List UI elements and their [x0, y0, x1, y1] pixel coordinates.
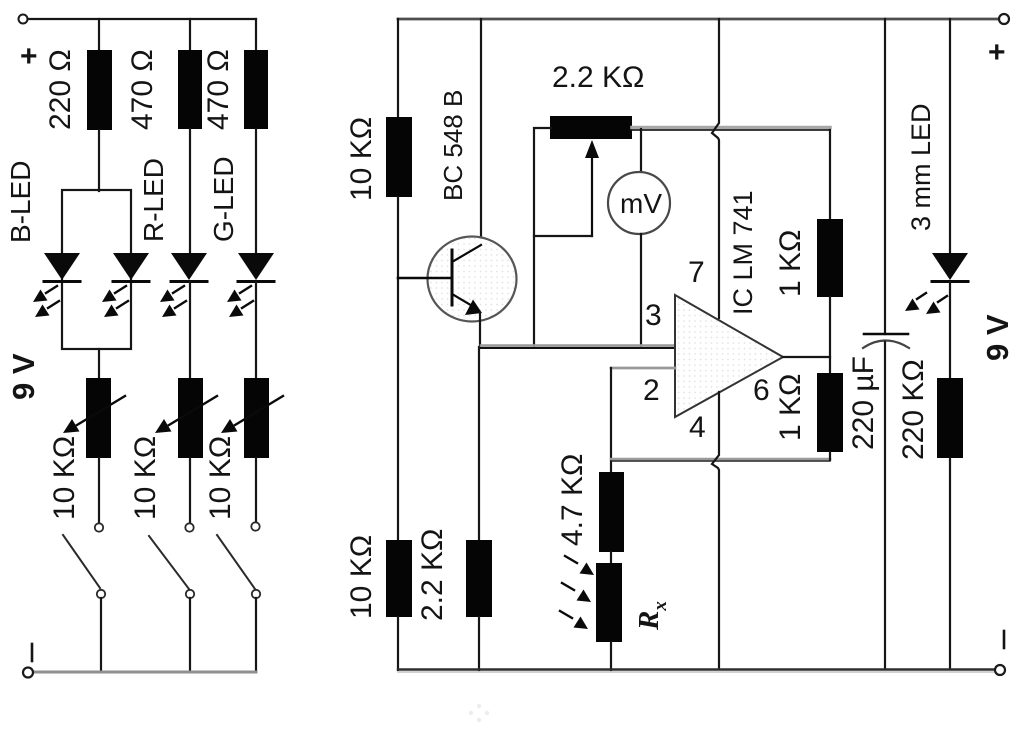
svg-text:B-LED: B-LED — [5, 161, 36, 243]
resistor 220 Ω — [87, 50, 112, 130]
switch S3 — [251, 522, 259, 530]
resistor 10 kΩ (base divider top) — [386, 117, 412, 197]
wire bottom rail (negative) — [398, 668, 995, 670]
svg-text:3 mm LED: 3 mm LED — [906, 103, 936, 231]
diode B-LED a (left) — [33, 253, 80, 317]
resistor 1 kΩ (upper) — [817, 219, 843, 297]
wire pot2 to switch2 — [189, 458, 191, 523]
wire base — [398, 277, 450, 280]
svg-text:+: + — [20, 40, 38, 73]
svg-text:10 KΩ: 10 KΩ — [129, 436, 162, 520]
potentiometer 2.2 KΩ body — [550, 116, 632, 139]
wire bottom rail — [33, 671, 256, 674]
wire pin4 down with hop — [712, 392, 719, 669]
svg-text:2.2 KΩ: 2.2 KΩ — [552, 61, 644, 94]
diode 3 mm LED — [905, 253, 968, 314]
wire output to 1k junction — [783, 356, 830, 358]
faint artifact dots — [469, 704, 489, 722]
svg-text:+: + — [988, 36, 1006, 69]
svg-text:10 KΩ: 10 KΩ — [345, 117, 378, 201]
switch S2 — [185, 523, 193, 531]
wire left branch resistor to bottom resistor — [397, 197, 399, 541]
wire pin2 (gray) — [611, 367, 675, 370]
wire left branch from rail — [397, 19, 399, 118]
svg-text:9 V: 9 V — [980, 314, 1015, 361]
wire meter top — [640, 129, 642, 172]
svg-text:220 µF: 220 µF — [847, 356, 880, 450]
wire pin3 node (emitter to op-amp +) — [481, 344, 675, 347]
svg-text:IC LM 741: IC LM 741 — [728, 190, 758, 315]
terminal + (right circuit) — [999, 14, 1009, 24]
wire pot left terminal down — [534, 128, 551, 346]
LDR light arrows — [560, 556, 594, 629]
label - — [1003, 631, 1006, 648]
svg-text:220 Ω: 220 Ω — [44, 49, 77, 130]
wire branch1 top — [98, 19, 100, 51]
meter mV — [608, 172, 670, 234]
terminal - (negative supply, left circuit) — [23, 668, 33, 678]
node B-LED parallel loop — [62, 190, 131, 349]
svg-text:7: 7 — [688, 256, 705, 289]
terminal - (right circuit) — [995, 665, 1005, 675]
svg-text:3: 3 — [645, 299, 662, 332]
resistor 10 kΩ (base divider bottom) — [386, 540, 412, 617]
wire inverting input down — [610, 368, 612, 472]
wire collector from rail — [480, 19, 482, 246]
wire top-right 1k feed — [829, 130, 831, 220]
wire pot wiper tie — [534, 235, 592, 237]
resistor 2.2 kΩ (emitter) — [466, 540, 492, 617]
wire feedback node (gray) — [611, 458, 830, 461]
wire emitter branch to 2.2 kΩ — [478, 347, 480, 541]
wire branch3 LED to pot3 — [255, 282, 257, 379]
capacitor 220 µF — [864, 333, 908, 336]
wire capacitor branch from rail — [884, 19, 886, 334]
wire pin7 from rail with hop — [712, 19, 719, 318]
switch S1 — [95, 523, 103, 531]
wire emitter down — [479, 313, 481, 347]
wire 220k to ground rail — [949, 458, 951, 669]
svg-text:6: 6 — [753, 374, 770, 407]
svg-text:BC 548 B: BC 548 B — [438, 90, 468, 201]
svg-text:1 KΩ: 1 KΩ — [774, 374, 807, 441]
wire branch3 top — [255, 19, 257, 51]
wire emitter resistor to ground rail — [478, 617, 480, 670]
wire switch1 to ground rail — [100, 598, 102, 671]
svg-text:220 KΩ: 220 KΩ — [897, 359, 930, 460]
svg-text:1 KΩ: 1 KΩ — [774, 230, 807, 297]
svg-text:9 V: 9 V — [6, 353, 41, 400]
svg-text:470 Ω: 470 Ω — [126, 49, 159, 130]
wire 4.7k to LDR — [610, 552, 612, 563]
resistor 470 Ω (G-LED) — [244, 50, 268, 129]
diode R-LED — [160, 253, 207, 317]
wire loop bottom to pot1 — [98, 349, 100, 379]
wire LED branch from rail — [949, 19, 951, 254]
wire pot1 to switch1 — [98, 458, 100, 523]
svg-text:4.7 KΩ: 4.7 KΩ — [556, 454, 589, 546]
svg-text:2.2 KΩ: 2.2 KΩ — [416, 529, 449, 621]
wire branch2 top — [189, 19, 191, 51]
wire branch1 resistor to loop — [98, 130, 100, 191]
wire switch3 to ground rail — [255, 598, 257, 671]
transistor Q1 BC548B — [428, 237, 517, 322]
potentiometer 10 KΩ #2 — [178, 378, 203, 458]
svg-text:R-LED: R-LED — [138, 158, 169, 242]
LDR Rx — [596, 563, 622, 642]
wire left branch to ground rail — [397, 617, 399, 670]
wire LED to 220k — [949, 282, 951, 379]
pot wiper arrow — [591, 155, 593, 236]
terminal + (positive supply, left circuit) — [19, 15, 28, 24]
op-amp U1 LM741 — [675, 295, 783, 417]
potentiometer 10 KΩ #3 — [244, 378, 269, 458]
wire branch2 LED to pot2 — [189, 282, 191, 379]
wire pot3 to switch3 — [255, 458, 257, 522]
label - — [31, 644, 34, 661]
resistor 1 kΩ (lower) — [817, 373, 843, 452]
svg-text:4: 4 — [689, 411, 706, 444]
resistor 470 Ω (R-LED) — [178, 50, 202, 129]
wire capacitor to ground rail — [884, 342, 886, 669]
svg-text:470 Ω: 470 Ω — [202, 49, 235, 130]
svg-text:mV: mV — [620, 188, 662, 219]
diode G-LED — [227, 253, 274, 317]
wire upper 1k to output junction — [829, 297, 831, 374]
wire top rail (positive) — [398, 18, 999, 21]
wire lower 1k to feedback wire — [829, 452, 831, 460]
svg-text:10 KΩ: 10 KΩ — [204, 436, 237, 520]
potentiometer 10 KΩ #1 — [86, 378, 111, 458]
diode B-LED b (right) — [102, 253, 149, 317]
svg-text:10 KΩ: 10 KΩ — [48, 436, 81, 520]
wire pot right terminal (gray) — [632, 126, 830, 130]
wire switch2 to ground rail — [189, 598, 191, 671]
resistor 4.7 kΩ — [599, 472, 624, 552]
resistor 220 KΩ — [937, 378, 963, 458]
svg-text:G-LED: G-LED — [208, 156, 239, 242]
wire branch3 resistor to LED — [255, 129, 257, 254]
wire LDR to ground rail — [610, 642, 612, 670]
wire top rail — [28, 18, 256, 20]
svg-text:2: 2 — [643, 374, 660, 407]
wire meter bottom — [640, 234, 642, 347]
wire branch2 resistor to LED — [189, 129, 191, 254]
svg-text:10 KΩ: 10 KΩ — [345, 535, 378, 619]
